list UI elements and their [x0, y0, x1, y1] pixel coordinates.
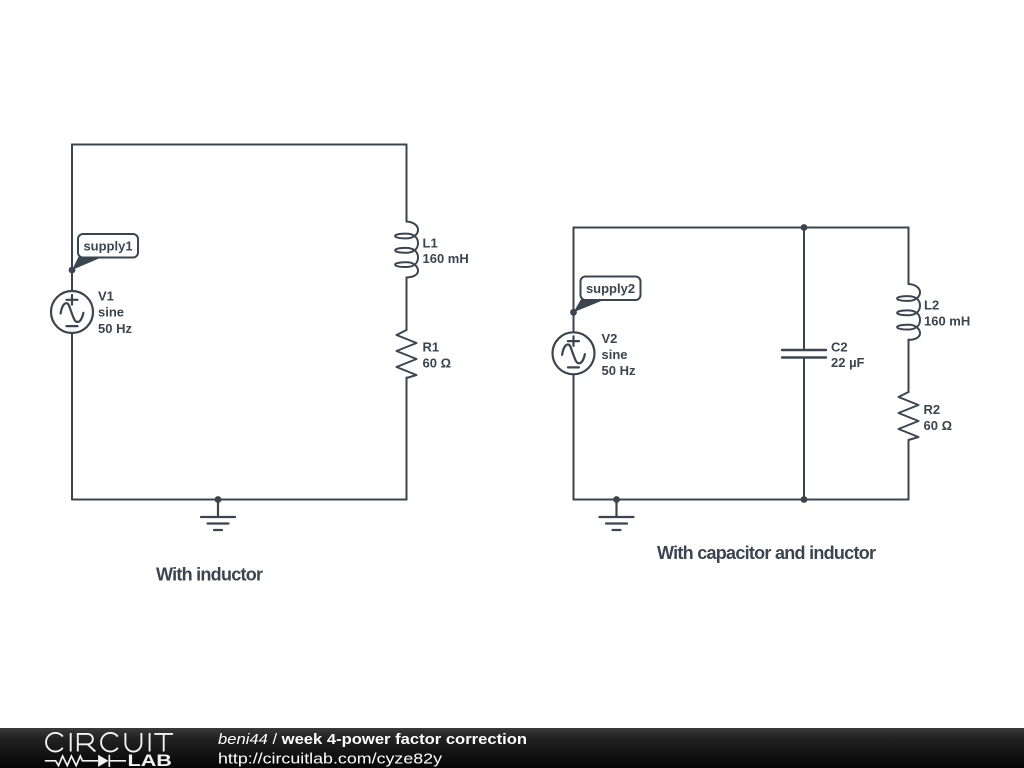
wire: right circuit top: [574, 227, 909, 229]
svg-text:sine: sine: [98, 305, 124, 320]
svg-text:sine: sine: [602, 347, 628, 362]
label C2: [831, 340, 865, 371]
node junction top C2: [801, 224, 808, 231]
svg-text:60 Ω: 60 Ω: [423, 356, 452, 371]
label V1: [98, 289, 132, 337]
voltage source V2: [553, 332, 595, 374]
logo diode: [98, 755, 108, 767]
wire: left circuit top: [72, 144, 407, 146]
svg-text:50 Hz: 50 Hz: [602, 363, 636, 378]
letter U: [125, 733, 141, 752]
label L1: [423, 235, 469, 266]
flag supply1: [72, 234, 138, 270]
svg-text:V1: V1: [98, 289, 114, 304]
label L2: [924, 298, 970, 329]
svg-text:supply1: supply1: [83, 238, 132, 253]
ground (left): [201, 500, 235, 531]
svg-text:L1: L1: [423, 235, 438, 250]
wire: right circuit right side: [908, 228, 910, 500]
wire: left circuit left side: [71, 145, 73, 500]
letter C: [101, 733, 118, 752]
capacitor C2: [782, 350, 826, 358]
svg-text:160 mH: 160 mH: [423, 251, 469, 266]
logo resistor zigzag: [45, 756, 98, 766]
svg-text:With inductor: With inductor: [156, 565, 263, 585]
letter I: [70, 733, 72, 752]
svg-text:22 µF: 22 µF: [831, 355, 865, 370]
wire: left circuit bottom: [72, 499, 407, 501]
footer bar: [0, 728, 1024, 768]
wire: right circuit bottom: [574, 499, 909, 501]
wire: left circuit right side: [406, 145, 408, 500]
svg-text:L2: L2: [924, 298, 939, 313]
letter I: [149, 733, 151, 752]
svg-text:R2: R2: [924, 402, 941, 417]
letter C: [46, 733, 63, 752]
svg-text:http://circuitlab.com/cyze82y: http://circuitlab.com/cyze82y: [218, 751, 443, 768]
logo CIRCUIT (custom thin letters): [46, 733, 173, 752]
svg-text:R1: R1: [423, 340, 440, 355]
svg-text:C2: C2: [831, 340, 848, 355]
inductor L2: [897, 284, 920, 340]
flag supply2: [574, 277, 641, 313]
node ground right: [613, 496, 620, 503]
letter T: [154, 734, 173, 752]
svg-text:supply2: supply2: [586, 281, 635, 296]
wire: capacitor branch: [803, 228, 805, 500]
node ground left: [215, 496, 222, 503]
svg-text:60 Ω: 60 Ω: [924, 418, 953, 433]
wire: right circuit left side: [573, 228, 575, 500]
node supply1 attach: [69, 267, 76, 274]
inductor L1: [395, 222, 418, 278]
node supply2 attach: [570, 309, 577, 316]
letter R: [78, 734, 96, 752]
voltage source V1: [51, 291, 93, 333]
label R1: [423, 340, 452, 371]
label R2: [924, 402, 953, 433]
label V2: [602, 331, 636, 378]
svg-text:beni44 / week 4-power factor c: beni44 / week 4-power factor correction: [218, 731, 527, 748]
svg-text:V2: V2: [602, 331, 618, 346]
ground (right): [600, 500, 634, 531]
svg-text:160 mH: 160 mH: [924, 314, 970, 329]
svg-text:LAB: LAB: [128, 752, 172, 768]
node junction bottom C2: [801, 496, 808, 503]
svg-text:With capacitor and inductor: With capacitor and inductor: [657, 543, 876, 563]
resistor R2: [899, 392, 919, 440]
svg-text:50 Hz: 50 Hz: [98, 321, 132, 336]
resistor R1: [397, 330, 417, 378]
